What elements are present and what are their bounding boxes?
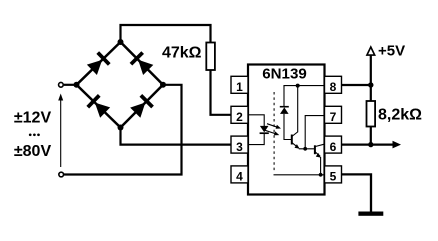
pin 3 box (231, 136, 248, 154)
bridge rectifier edges (77, 42, 164, 128)
IC U1 6N139 optocoupler body (248, 65, 325, 195)
junction dot: pin 7 tap on base wire (303, 147, 307, 151)
svg-text:3: 3 (236, 140, 243, 154)
resistor R2 8,2kΩ body (367, 101, 376, 127)
transistor Q2 (output of darlington) (315, 144, 324, 175)
light arrow 2 (265, 130, 279, 135)
svg-text:1: 1 (236, 80, 243, 94)
wire: LED loop from pin 2 to pin 3 (internal) (249, 115, 264, 145)
pin 4 box (231, 166, 248, 184)
junction dot: Q2 emitter on ground rail (319, 173, 323, 177)
wire: resistor bottom to output line (370, 127, 372, 145)
svg-text:±80V: ±80V (14, 143, 52, 160)
pin 2 box (231, 106, 248, 124)
wire: internal VCC rail to pin 8 (284, 85, 324, 88)
svg-text:7: 7 (330, 110, 337, 124)
svg-text:2: 2 (236, 110, 243, 124)
wire: pin 8 stub to +5V column (342, 84, 371, 86)
voltage range arrow (58, 94, 63, 168)
wire: lower terminal right and up to bridge right node (64, 85, 182, 175)
output arrowhead (393, 141, 402, 149)
svg-text:8: 8 (330, 80, 337, 94)
terminal lower input (59, 172, 64, 177)
svg-text:5: 5 (330, 170, 337, 184)
svg-text:4: 4 (236, 170, 243, 184)
svg-text:47kΩ: 47kΩ (162, 45, 202, 62)
wire: pin 5 to ground (342, 174, 372, 211)
ground (358, 212, 383, 216)
pin 6 box (325, 136, 342, 154)
wire: bridge top node up and right to 47k resistor (121, 25, 211, 43)
junction dot: output/resistor (368, 142, 373, 147)
svg-text:8,2kΩ: 8,2kΩ (378, 106, 422, 123)
node dot: bridge left (74, 82, 80, 88)
node dot: bridge top (118, 39, 124, 45)
diode D3 (lower-left, points to left node) (86, 94, 110, 118)
transistor Q1 (first of darlington) (292, 86, 300, 149)
photodiode D6 (inside U1) (280, 86, 292, 140)
wire: bridge bottom node down then right to pin 3 (121, 128, 232, 145)
wire: upper terminal to bridge left node (64, 84, 77, 86)
svg-text:6: 6 (330, 140, 337, 154)
wire: internal ground rail to pin 5 (274, 174, 325, 176)
diode D1 (upper-left, points to top node) (86, 51, 110, 75)
svg-text:±12V: ±12V (14, 109, 52, 126)
resistor R1 47kΩ body (206, 43, 215, 71)
pin 1 box (231, 76, 248, 94)
junction dot: pin8/+5V (368, 82, 373, 87)
pin 8 box (325, 76, 342, 94)
svg-text:6N139: 6N139 (262, 65, 306, 82)
LED D5 (emitter diode inside U1) (260, 126, 269, 133)
pin 7 box (325, 106, 342, 124)
wire: pin 6 output line (342, 143, 397, 145)
label ... (29, 133, 32, 136)
pin 5 box (325, 166, 342, 184)
wire: 47k resistor bottom down to pin 2 stub (211, 70, 232, 115)
wire: Q1 emitter to Q2 base, pin 7 tap (299, 116, 324, 149)
diode D2 (upper-right, points to top node) (130, 51, 154, 75)
terminal upper input (59, 82, 64, 87)
node dot: bridge right (160, 82, 166, 88)
isolation barrier dashed line (273, 92, 275, 172)
svg-text:+5V: +5V (378, 42, 405, 59)
node dot: bridge bottom (118, 125, 124, 131)
light arrow 1 (267, 124, 281, 129)
junction dot: Q1 collector on VCC rail (296, 84, 300, 88)
+5V supply terminal (367, 47, 375, 101)
diode D4 (lower-right, points to right node) (129, 94, 153, 118)
